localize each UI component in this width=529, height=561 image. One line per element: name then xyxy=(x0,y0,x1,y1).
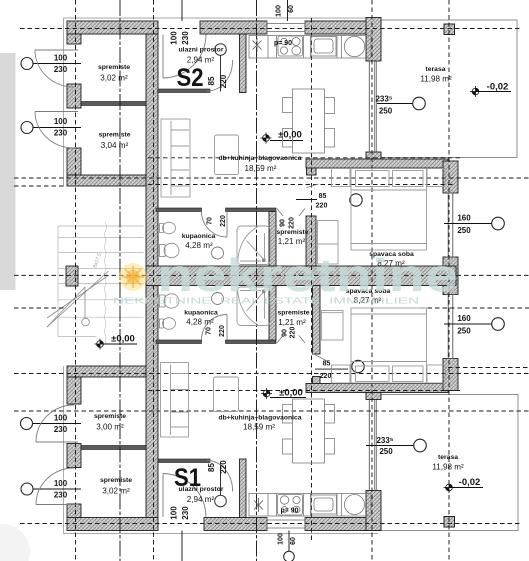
svg-text:85: 85 xyxy=(323,361,331,368)
svg-text:60: 60 xyxy=(288,5,295,13)
svg-text:70: 70 xyxy=(207,217,214,225)
svg-text:18,59 m²: 18,59 m² xyxy=(243,423,275,432)
dim line 233/250 S1 xyxy=(366,445,414,447)
svg-text:85: 85 xyxy=(207,463,216,472)
svg-text:spremiste: spremiste xyxy=(98,64,130,71)
bedroom S1 west door jamb xyxy=(313,377,321,384)
shower S2 xyxy=(237,226,270,265)
ulazni S1 north partition xyxy=(158,459,210,463)
ulazni-living door arc S2 xyxy=(207,60,233,91)
bathroom S2 north partition east seg xyxy=(226,208,277,212)
lamp cross symbol S1 kitchen xyxy=(254,498,263,512)
circle at bedroom S1 door xyxy=(352,360,364,372)
bathroom S1 east wall xyxy=(269,286,276,341)
svg-text:220: 220 xyxy=(220,215,227,227)
axis circle bottom window axis xyxy=(284,551,295,561)
bathroom S1 south partition east seg xyxy=(226,340,277,344)
dining table S2 xyxy=(283,89,335,153)
staircase going line with arrow xyxy=(47,271,109,327)
svg-text:100: 100 xyxy=(54,54,68,63)
terasa S2 outline (top right) xyxy=(377,20,518,158)
axis circle door2 xyxy=(21,122,33,134)
svg-text:220: 220 xyxy=(219,74,228,88)
wall top outer, right segment xyxy=(305,21,381,34)
junction block above bedroom wall xyxy=(366,152,381,159)
bedroom east wall middle block (party junction) xyxy=(443,257,458,295)
storage bottom wall band S2 xyxy=(67,175,158,186)
bathroom S1 south partition west seg xyxy=(156,340,202,344)
axis circle 233/250 S1 xyxy=(414,439,427,452)
svg-text:db+kuhinja+blagovaonica: db+kuhinja+blagovaonica xyxy=(219,415,302,422)
axis circle door3 xyxy=(21,418,33,430)
svg-text:18,59 m²: 18,59 m² xyxy=(245,164,277,173)
door1 storage S2 leaf+arc xyxy=(35,49,78,51)
left wall block between lower storage doors xyxy=(67,444,81,468)
outer insulation offset lines xyxy=(64,18,379,534)
svg-text:230: 230 xyxy=(54,129,68,138)
dim line 233/250 S2 xyxy=(377,103,413,105)
party wall between S1 and S2 xyxy=(146,266,456,286)
armchair S2 living xyxy=(215,135,239,175)
entrance door S1 leaf+arc xyxy=(162,474,164,518)
svg-text:250: 250 xyxy=(379,107,393,116)
pendant lamp ulazni S2 xyxy=(215,44,227,56)
sink cabinet S1 xyxy=(311,495,337,514)
left wall block between storage doors xyxy=(67,84,81,108)
svg-text:ulazni prostor: ulazni prostor xyxy=(179,47,224,54)
svg-text:spremiste: spremiste xyxy=(94,413,126,420)
bed S2 xyxy=(332,169,446,251)
wall top outer, mid segment (between entrance and window) xyxy=(200,21,267,34)
svg-text:250: 250 xyxy=(457,226,471,235)
bathroom door S1 leaf+arc xyxy=(226,315,228,341)
terrace glass door S1 xyxy=(369,400,375,491)
left wall block below door2 xyxy=(67,148,81,175)
terrace glass door S2 xyxy=(369,61,375,152)
bedroom S2 north wall xyxy=(306,159,448,168)
closet S1 door marks xyxy=(277,336,283,344)
svg-text:60: 60 xyxy=(290,537,297,545)
svg-text:220: 220 xyxy=(320,373,332,380)
door3 storage S1 leaf+arc xyxy=(36,441,78,443)
level mark +0.00 living S2 xyxy=(261,133,272,144)
svg-text:1,21 m²: 1,21 m² xyxy=(278,318,306,327)
wall top outer, left segment xyxy=(67,21,158,34)
kitchen window S2 (p=90) xyxy=(267,21,305,34)
dim line bedroom door 85 S2 xyxy=(296,199,317,201)
staircase cut line xyxy=(104,222,106,344)
svg-text:kupaonica: kupaonica xyxy=(182,233,216,240)
floor drain S1 xyxy=(212,293,224,305)
left wall top jamb xyxy=(67,34,81,44)
nightstands S2 xyxy=(332,169,351,187)
svg-text:85: 85 xyxy=(207,76,216,85)
circle at bedroom S2 door xyxy=(350,194,362,206)
grey sidebar strip left edge xyxy=(0,53,16,290)
terasa S2 column xyxy=(444,24,455,35)
dim line window 160/250 S1 xyxy=(444,323,492,325)
door4 storage S1 leaf+arc xyxy=(36,504,78,506)
dim line door1 100/230 xyxy=(33,63,81,65)
svg-text:3,02 m²: 3,02 m² xyxy=(102,487,130,496)
svg-text:250: 250 xyxy=(457,326,471,335)
svg-text:100: 100 xyxy=(54,479,68,488)
svg-text:100: 100 xyxy=(170,31,179,45)
svg-text:160: 160 xyxy=(457,214,471,223)
dim line bedroom door 85 S1 xyxy=(315,368,348,370)
dim line window 160/250 S2 xyxy=(444,223,492,225)
level mark +0.00 staircase xyxy=(95,339,106,350)
svg-text:230: 230 xyxy=(54,491,68,500)
dim line door3 100/230 xyxy=(33,423,82,425)
svg-text:ulazni prostor: ulazni prostor xyxy=(179,486,224,493)
svg-text:kupaonica: kupaonica xyxy=(184,310,218,317)
svg-text:90: 90 xyxy=(280,219,287,227)
kitchen counter S2 xyxy=(249,36,371,59)
bedroom S2 west door jamb xyxy=(307,168,317,175)
dim line door2 100/230 xyxy=(33,127,81,129)
svg-text:100: 100 xyxy=(54,117,68,126)
wardrobe S2 bedroom xyxy=(318,221,339,265)
partition between spremiste 3.02/3.04 xyxy=(81,102,146,106)
bedroom door S1 leaf xyxy=(312,353,327,361)
ulazni prostor S2 east wall xyxy=(240,34,247,93)
svg-text:spremiste: spremiste xyxy=(276,229,308,236)
svg-text:db+kuhinja+blagovaonica: db+kuhinja+blagovaonica xyxy=(219,155,302,162)
svg-text:p= 90: p= 90 xyxy=(274,40,292,47)
closet S2 door marks xyxy=(277,209,283,217)
svg-text:230: 230 xyxy=(181,31,190,45)
wall bottom outer, mid segment xyxy=(204,518,267,531)
ulazni prostor S1 east wall xyxy=(240,459,247,518)
svg-text:NEKRETNINE REAL ESTATE IMMOB: NEKRETNINE REAL ESTATE IMMOBILIEN xyxy=(113,297,419,306)
svg-text:terasa: terasa xyxy=(438,454,458,461)
party wall left block at stairwell xyxy=(66,266,78,286)
level mark -0.02 terasa S1 xyxy=(444,482,455,493)
bathroom door S2 leaf+arc xyxy=(226,212,228,238)
svg-text:4,28 m²: 4,28 m² xyxy=(186,318,214,327)
svg-text:±0,00: ±0,00 xyxy=(279,388,303,399)
bedroom S1 south wall xyxy=(306,384,448,393)
svg-text:terasa: terasa xyxy=(425,66,445,73)
bed S1 xyxy=(332,308,446,383)
ulazni-living door arc S1 xyxy=(207,460,233,491)
svg-text:70: 70 xyxy=(206,327,213,335)
svg-text:-0,02: -0,02 xyxy=(459,477,481,488)
bedroom S2 west wall xyxy=(306,216,316,266)
stove S2 with burners xyxy=(278,36,303,56)
bedroom S2 window 160/250 xyxy=(448,193,453,257)
pendant lamp ulazni S1 xyxy=(215,495,227,507)
kitchen counter S1 xyxy=(249,494,371,517)
bedroom S1 east wall lower block xyxy=(443,359,458,391)
svg-text:spremiste: spremiste xyxy=(100,477,132,484)
bathroom S2 north partition west seg xyxy=(156,208,202,212)
svg-text:233⁵: 233⁵ xyxy=(375,95,392,104)
level underlines xyxy=(100,92,511,488)
svg-text:230: 230 xyxy=(181,506,190,520)
round sink S1 xyxy=(345,495,365,515)
living east wall upper block (terrace corner) xyxy=(366,18,381,62)
svg-text:233⁵: 233⁵ xyxy=(376,436,393,445)
svg-text:220: 220 xyxy=(219,325,226,337)
wall bottom outer, right segment xyxy=(305,518,381,531)
axis circle door4 xyxy=(21,483,33,495)
chairs S1 xyxy=(283,405,293,424)
svg-text:S2: S2 xyxy=(177,64,204,92)
lower storage top wall band S1 xyxy=(67,366,158,377)
svg-text:p= 90: p= 90 xyxy=(280,507,298,514)
junction block below bedroom S1 wall xyxy=(366,393,381,400)
chairs S2 xyxy=(283,98,293,113)
left wall block above door3 xyxy=(67,377,81,404)
spine wall lower xyxy=(146,286,158,518)
svg-text:100: 100 xyxy=(278,533,285,545)
washbasin S2 xyxy=(160,222,176,234)
washbasin S1 xyxy=(160,318,176,330)
axis circle 233/250 S2 xyxy=(413,97,426,110)
left wall bottom jamb xyxy=(67,504,81,518)
svg-text:90: 90 xyxy=(282,329,289,337)
toilet S1 xyxy=(160,294,180,308)
svg-text:100: 100 xyxy=(54,414,68,423)
stove S1 with burners xyxy=(278,495,303,516)
living east wall lower block (terrace corner) xyxy=(366,491,381,531)
door2 storage S2 leaf+arc xyxy=(35,111,78,113)
svg-text:100: 100 xyxy=(170,506,179,520)
svg-text:3,00 m²: 3,00 m² xyxy=(96,423,124,432)
shower S1 xyxy=(237,287,270,326)
svg-text:-0,02: -0,02 xyxy=(487,82,509,93)
svg-text:1,21 m²: 1,21 m² xyxy=(278,237,306,246)
sofa S2 xyxy=(161,119,190,197)
svg-text:100: 100 xyxy=(276,5,283,17)
svg-text:220: 220 xyxy=(219,460,228,474)
floor drain S2 xyxy=(212,247,224,259)
dining table S1 xyxy=(283,399,335,463)
staircase treads xyxy=(58,226,144,337)
svg-text:nekretnine: nekretnine xyxy=(157,249,458,301)
watermark logo starburst xyxy=(119,263,147,291)
dim line door4 100/230 xyxy=(33,488,81,490)
wall bottom outer, left segment xyxy=(67,518,158,531)
terasa S1 outline (bottom right) xyxy=(377,395,519,531)
bedroom S1 west wall xyxy=(313,286,321,355)
toilet S2 xyxy=(160,243,180,257)
spine wall upper (stairwell/storage east wall) xyxy=(146,34,158,266)
svg-text:250: 250 xyxy=(379,447,393,456)
svg-text:±0,00: ±0,00 xyxy=(278,130,302,141)
svg-text:160: 160 xyxy=(457,314,471,323)
svg-text:220: 220 xyxy=(290,327,297,339)
bedroom window caps xyxy=(446,193,455,359)
svg-text:230: 230 xyxy=(54,65,68,74)
svg-text:3,04 m²: 3,04 m² xyxy=(101,141,129,150)
svg-text:220: 220 xyxy=(289,217,296,229)
axis circle door1 xyxy=(21,58,33,70)
svg-text:220: 220 xyxy=(316,203,328,210)
sofa S1 xyxy=(161,363,189,438)
bedroom S1 window 160/250 xyxy=(448,295,453,359)
wardrobe S1 bedroom xyxy=(322,311,344,341)
entrance door S2 leaf+arc xyxy=(162,35,164,79)
svg-text:85: 85 xyxy=(319,193,327,200)
faint corner watermark blob xyxy=(0,524,30,561)
svg-text:spremiste: spremiste xyxy=(98,132,130,139)
ulazni S2 south partition xyxy=(158,89,210,93)
bedroom door S2 leaf xyxy=(307,184,319,188)
svg-text:spremiste: spremiste xyxy=(277,310,309,317)
svg-text:2,94 m²: 2,94 m² xyxy=(187,495,215,504)
terasa S1 column xyxy=(444,517,455,528)
level mark -0.02 terasa S2 xyxy=(470,86,481,97)
lamp cross symbol S2 kitchen xyxy=(253,38,262,52)
svg-text:230: 230 xyxy=(54,425,68,434)
nightstands S1 xyxy=(332,365,351,383)
round sink S2 xyxy=(344,36,364,56)
level mark +0.00 living S1 xyxy=(261,388,272,399)
sink cabinet S2 xyxy=(311,37,336,57)
svg-text:11,98 m²: 11,98 m² xyxy=(432,463,464,472)
axis circle 160/250 S2 xyxy=(492,217,505,230)
partition between spremiste 3.00/3.02 xyxy=(81,446,146,450)
svg-text:3,02 m²: 3,02 m² xyxy=(100,74,128,83)
axis circle 160/250 S1 xyxy=(492,318,505,331)
bedroom S2 east wall upper block xyxy=(443,161,458,193)
kitchen window S1 xyxy=(267,518,305,531)
armchair S1 living xyxy=(214,377,239,412)
bathroom S2 east wall xyxy=(269,212,276,267)
svg-text:±0,00: ±0,00 xyxy=(111,334,135,345)
svg-text:11,98 m²: 11,98 m² xyxy=(420,75,452,84)
